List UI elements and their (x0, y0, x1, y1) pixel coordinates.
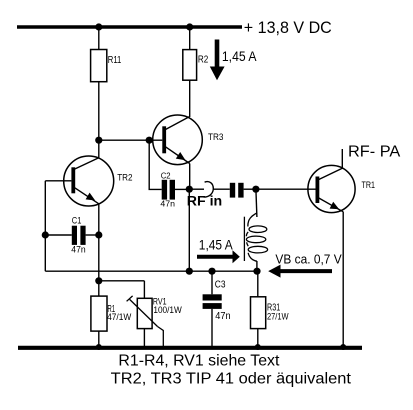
wire to TR1 base (256, 188, 316, 190)
junction bus/L1/R31 (253, 268, 260, 275)
wire bias node to RV1 (99, 280, 145, 282)
transistor TR2 (64, 156, 114, 206)
resistor R2 (183, 50, 197, 81)
inductor L1 (RF choke) (244, 189, 267, 271)
junction rail/R11 (95, 23, 102, 30)
svg-text:R1-R4, RV1 siehe Text: R1-R4, RV1 siehe Text (118, 353, 280, 370)
wire R1 bottom lead (98, 331, 100, 348)
svg-text:1,45 A: 1,45 A (222, 49, 257, 64)
RF input hook (203, 182, 214, 197)
wire R31 top lead (257, 271, 259, 297)
wire R11 top lead (98, 27, 100, 50)
junction R1/ground (96, 344, 102, 350)
arrow VB pointing left (268, 265, 332, 278)
svg-text:1,45 A: 1,45 A (199, 237, 233, 252)
resistor R31 (251, 297, 266, 329)
wire RV1 bottom lead (143, 329, 145, 348)
resistor R11 (91, 50, 107, 82)
capacitor C2 (162, 180, 190, 200)
svg-text:27/1W: 27/1W (267, 312, 289, 322)
svg-text:VB ca. 0,7 V: VB ca. 0,7 V (275, 252, 341, 267)
junction R11/TR2 collector (95, 137, 102, 144)
wire TR2 base left (45, 180, 71, 182)
power rail +13,8V (17, 25, 242, 29)
junction bus/left branch (186, 268, 193, 275)
wire TR2 collector up (98, 140, 100, 158)
svg-text:TR1: TR1 (362, 180, 376, 191)
wire RF node to input hook (189, 188, 204, 190)
junction C1 right (95, 231, 102, 238)
wire R2 top lead (189, 27, 191, 50)
transistor TR3 (153, 115, 203, 165)
wire C2 left lead drop (149, 140, 162, 189)
junction rail/R2 (186, 23, 193, 30)
svg-text:47n: 47n (160, 198, 175, 208)
wire TR1 emitter down to ground (342, 212, 344, 347)
resistor R1 (91, 296, 107, 331)
svg-text:100/1W: 100/1W (153, 305, 182, 315)
svg-text:TR2, TR3 TIP 41 oder äquivalen: TR2, TR3 TIP 41 oder äquivalent (111, 371, 352, 388)
wire TR2 emitter down (98, 204, 100, 281)
capacitor C3 (203, 271, 222, 348)
svg-text:R11: R11 (108, 55, 122, 66)
potentiometer RV1 (127, 296, 164, 347)
wire TR3 emitter down (189, 164, 191, 190)
svg-text:TR2: TR2 (117, 173, 132, 184)
wire R11 bottom lead (98, 82, 100, 141)
wire modulated supply bus (45, 270, 257, 272)
wire hook to coupling capacitor (214, 188, 230, 190)
junction C1 left (42, 231, 49, 238)
junction bus/C3 (208, 268, 215, 275)
current arrow 1,45 A right (197, 250, 240, 263)
svg-text:TR3: TR3 (208, 132, 224, 143)
svg-text:C1: C1 (72, 216, 82, 227)
wire left vertical branch (44, 181, 46, 271)
svg-text:+ 13,8 V DC: + 13,8 V DC (244, 19, 332, 37)
capacitor C1 (45, 226, 99, 245)
svg-text:47n: 47n (215, 311, 230, 322)
svg-text:47/1W: 47/1W (107, 312, 132, 322)
junction C2 tap (146, 137, 153, 144)
wire R1 top lead (98, 281, 100, 296)
transistor TR1 (308, 165, 355, 212)
svg-text:47n: 47n (71, 245, 85, 256)
wire RV1 top lead (143, 281, 145, 299)
junction TR1 emitter/ground (340, 344, 346, 350)
junction R31/ground (255, 344, 261, 350)
wire TR1 collector up (341, 149, 343, 169)
junction TR3 emitter / C2 (186, 186, 193, 193)
wire R2 bottom lead to TR3 collector (189, 80, 191, 117)
junction TR1 base feed / L1 top (252, 186, 259, 193)
svg-text:C3: C3 (215, 279, 226, 290)
svg-text:C2: C2 (161, 170, 171, 180)
junction TR2 emitter / R1 / RV1 (95, 277, 102, 284)
current arrow 1,45 A (collector current) (210, 40, 225, 81)
svg-text:R2: R2 (198, 55, 209, 66)
wire TR3 base net (99, 139, 163, 141)
capacitor C4 (coupling, unlabeled) (230, 183, 256, 198)
wire RF node drop to bus (188, 189, 190, 271)
svg-text:RF- PA: RF- PA (348, 143, 401, 160)
ground rail (18, 346, 362, 350)
wire R31 bottom lead (257, 329, 259, 348)
svg-text:RF in: RF in (187, 193, 222, 208)
